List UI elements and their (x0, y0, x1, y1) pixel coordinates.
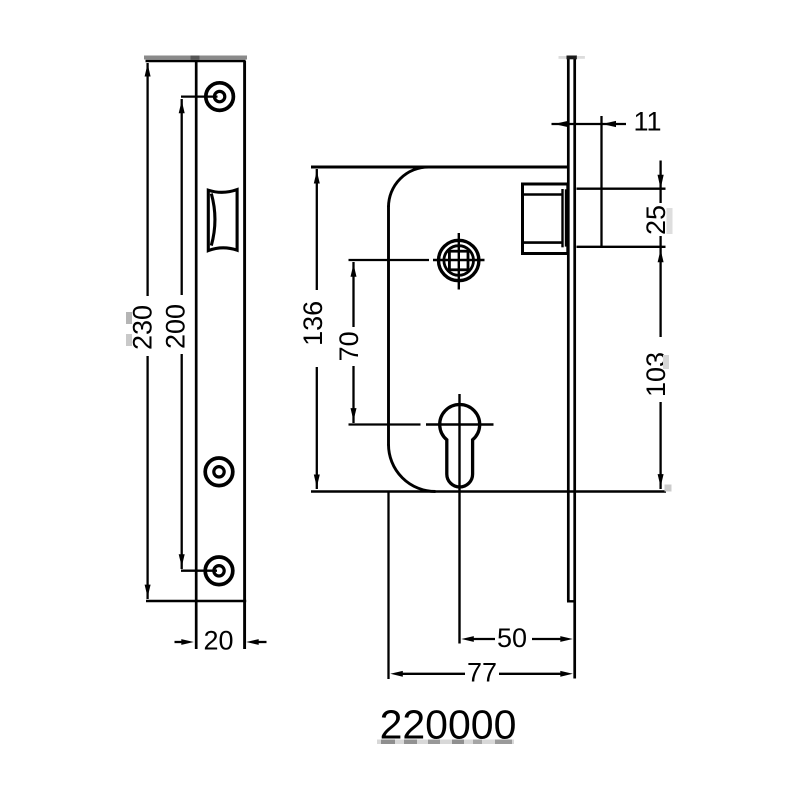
svg-text:77: 77 (467, 658, 497, 688)
small gray jpeg artifacts (126, 208, 673, 492)
dim 50 (461, 636, 573, 642)
svg-text:25: 25 (641, 205, 671, 235)
dim 77 (390, 671, 573, 677)
euro cylinder hole (440, 405, 480, 487)
dim 25 extension lines (577, 189, 666, 247)
svg-text:136: 136 (298, 301, 328, 346)
svg-text:11: 11 (633, 107, 661, 137)
follower centerline horizontal (349, 233, 485, 290)
faceplate outline (146, 61, 247, 649)
latch bolt side view (523, 184, 568, 254)
svg-text:70: 70 (334, 331, 364, 361)
gray top bar artifact (144, 56, 247, 60)
screw bottom (205, 557, 233, 585)
gray dashed underline artifact (377, 740, 514, 745)
svg-text:20: 20 (203, 626, 233, 656)
latch front view (208, 190, 237, 251)
extension line below body left (387, 492, 389, 680)
dim 136 (314, 169, 320, 489)
cylinder centerlines (349, 394, 494, 644)
svg-text:50: 50 (497, 623, 527, 653)
dim 11 (552, 116, 627, 247)
follower (square spindle hub) (439, 240, 479, 280)
faceplate edge view (559, 56, 585, 679)
dim 20 (175, 639, 267, 645)
dim 200 (179, 97, 218, 571)
screw middle (205, 458, 233, 486)
dim 103 (658, 247, 664, 489)
screw top (206, 83, 234, 111)
case body outline (311, 167, 666, 492)
dim 25 (658, 161, 664, 263)
svg-text:200: 200 (161, 304, 191, 349)
dim 70 (351, 262, 357, 423)
dim 230 (145, 63, 151, 599)
